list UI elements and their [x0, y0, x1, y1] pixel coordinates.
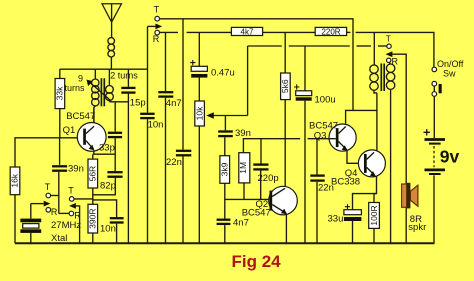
transistor Q1 BC547 — [63, 108, 106, 155]
wire audio line y46 seg2 — [289, 45, 350, 47]
svg-text:1M: 1M — [238, 162, 248, 174]
svg-text:100u: 100u — [315, 95, 336, 106]
svg-text:22n: 22n — [166, 157, 182, 168]
crystal 27MHz Xtal — [20, 204, 81, 244]
wire R rail segment 5 to on/off switch — [356, 32, 434, 67]
wire jog to Q3/Q4 collectors — [346, 110, 377, 124]
resistor 4k7 — [231, 27, 262, 36]
svg-text:turns: turns — [64, 83, 85, 93]
wire audio line y46 seg1 — [248, 45, 282, 47]
svg-text:220R: 220R — [321, 27, 340, 36]
transistor Q4 BC338 — [331, 150, 385, 188]
svg-text:BC338: BC338 — [331, 176, 360, 187]
svg-text:27MHz: 27MHz — [51, 220, 81, 231]
antenna loading coil L1 — [108, 38, 115, 70]
svg-text:T: T — [45, 182, 51, 192]
switch S1d T/R (right) — [386, 35, 407, 244]
resistor 390R — [88, 204, 98, 243]
wire Q1 base line — [15, 138, 83, 167]
switch S1c T/R (second lower) — [68, 186, 93, 244]
capacitor 15p — [121, 69, 145, 243]
switch S1b T/R (crystal) — [31, 182, 58, 217]
svg-text:33u: 33u — [328, 214, 344, 225]
wire Q4 collector up to transformer — [376, 93, 378, 150]
svg-text:9v: 9v — [440, 146, 460, 166]
resistor 100R — [369, 203, 380, 244]
svg-text:BC547: BC547 — [66, 111, 95, 122]
svg-text:220p: 220p — [258, 173, 279, 184]
switch S1a T/R (top left) — [148, 5, 163, 44]
svg-text:Q3: Q3 — [314, 131, 327, 142]
resistor 16k — [10, 167, 20, 243]
svg-text:9: 9 — [78, 73, 83, 83]
capacitor 22n (right) — [310, 139, 334, 244]
wire Q2 base line — [225, 198, 270, 200]
svg-text:10n: 10n — [148, 119, 164, 130]
capacitor 10n (lower) — [93, 200, 124, 243]
capacitor 33u electrolytic — [328, 194, 377, 244]
svg-text:BC547: BC547 — [242, 207, 271, 218]
wire audio line y46 seg4 — [378, 45, 387, 47]
svg-text:T: T — [386, 35, 391, 44]
capacitor 39n (mid) — [218, 116, 251, 156]
svg-text:Xtal: Xtal — [51, 233, 67, 244]
svg-text:R: R — [51, 207, 58, 217]
resistor 33k — [55, 69, 65, 138]
svg-text:0.47u: 0.47u — [211, 68, 235, 79]
svg-text:33k: 33k — [55, 86, 65, 100]
resistor 5k6 — [280, 32, 290, 138]
wire R rail segment 2 — [187, 31, 232, 33]
capacitor 22n (left) — [166, 151, 191, 244]
svg-text:100R: 100R — [369, 205, 379, 225]
svg-text:4k7: 4k7 — [241, 27, 254, 36]
svg-text:Sw: Sw — [443, 69, 456, 79]
svg-text:33p: 33p — [99, 143, 115, 154]
svg-text:R: R — [153, 34, 160, 44]
svg-text:16k: 16k — [10, 173, 20, 187]
ground rail — [15, 242, 435, 244]
speaker 8R — [402, 183, 427, 233]
svg-text:spkr: spkr — [408, 222, 426, 233]
capacitor 39n (left) — [51, 138, 84, 214]
switch On/Off Sw — [432, 59, 464, 96]
transformer T2 output — [370, 32, 395, 243]
wire Q2 collector up to 5k6 — [284, 139, 286, 187]
svg-text:R: R — [392, 56, 399, 66]
resistor 1M — [238, 139, 300, 200]
svg-text:Q1: Q1 — [63, 125, 76, 136]
antenna — [102, 4, 122, 38]
svg-text:On/Off: On/Off — [437, 59, 464, 69]
svg-text:82p: 82p — [100, 180, 116, 191]
capacitor 4n7 (upper) — [158, 32, 181, 243]
wire Q2 emitter to ground — [285, 214, 287, 243]
wire Q4 emitter down — [374, 176, 377, 202]
wire y46 down to wiper line — [247, 46, 249, 116]
svg-text:3k9: 3k9 — [220, 162, 230, 176]
resistor 56R — [88, 154, 98, 204]
wire Q1 emitter junction — [93, 153, 115, 155]
battery 9v — [424, 96, 460, 243]
capacitor 82p — [93, 172, 123, 195]
wire audio line y46 seg3 — [357, 45, 371, 47]
wire R rail segment 1 — [159, 31, 178, 33]
wire R rail segment 3 — [263, 31, 316, 33]
svg-text:15p: 15p — [130, 97, 146, 108]
transformer T1 9turns/2turns — [64, 69, 138, 123]
transistor Q3 BC547 — [308, 121, 364, 164]
wire R rail segment 4 — [347, 31, 351, 33]
svg-text:2 turns: 2 turns — [110, 71, 138, 81]
svg-text:390R: 390R — [88, 209, 98, 229]
capacitor 0.47u electrolytic — [190, 32, 235, 101]
capacitor 100u electrolytic — [294, 46, 336, 243]
resistor 10k trimpot — [194, 101, 247, 243]
capacitor 220p — [253, 139, 278, 200]
svg-text:39n: 39n — [68, 164, 84, 175]
capacitor 4n7 (lower) — [217, 218, 249, 244]
svg-text:5k6: 5k6 — [280, 79, 290, 93]
wire below 10n C? to ground — [147, 119, 149, 243]
svg-text:10k: 10k — [194, 106, 204, 120]
resistor 220R — [315, 27, 346, 36]
svg-text:56R: 56R — [88, 166, 98, 182]
capacitor 33p — [99, 102, 122, 171]
transistor Q2 BC547 — [242, 186, 298, 218]
capacitor 10n (top, on pole line) — [140, 114, 163, 131]
wire T rail top — [159, 19, 353, 111]
wire T rail drop through 22n — [182, 19, 184, 150]
svg-text:T: T — [154, 5, 160, 15]
wire switch pole down through 10n to ground — [147, 26, 149, 112]
svg-text:4n7: 4n7 — [233, 218, 249, 229]
node tank top line — [60, 68, 148, 70]
svg-text:4n7: 4n7 — [166, 98, 182, 109]
svg-text:39n: 39n — [235, 128, 251, 139]
resistor 3k9 — [220, 156, 230, 219]
svg-text:T: T — [68, 186, 74, 196]
svg-text:10n: 10n — [100, 224, 116, 235]
svg-text:Fig 24: Fig 24 — [232, 252, 282, 271]
